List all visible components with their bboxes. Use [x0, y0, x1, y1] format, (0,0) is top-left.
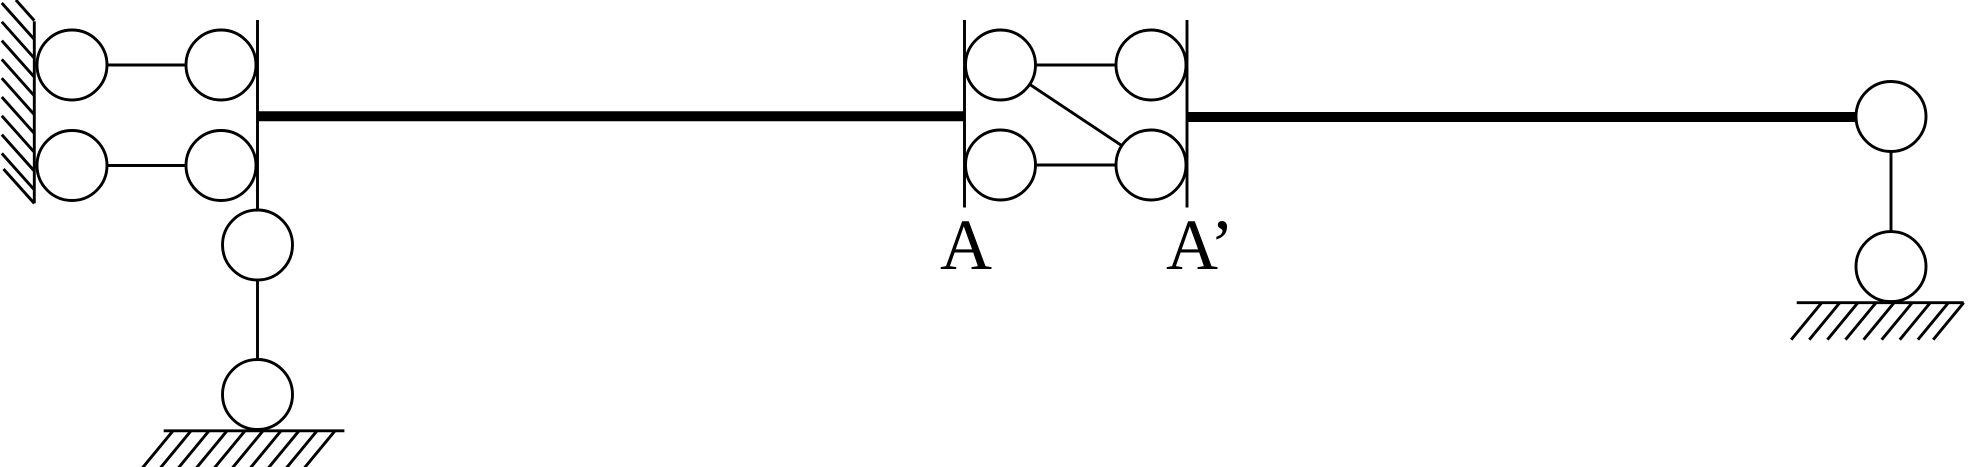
left ground hatching [143, 431, 336, 467]
left assembly roller circle top-left [37, 30, 107, 100]
left assembly bottom connector wire [72, 164, 221, 167]
svg-text:A: A [940, 205, 992, 285]
left ground line [164, 429, 345, 432]
middle top connector wire [1001, 64, 1152, 67]
left assembly roller circle bottom-left [37, 131, 107, 201]
right pendulum upper circle [1856, 82, 1926, 152]
section A left bar [963, 20, 966, 208]
left pendulum lower circle [223, 360, 293, 430]
middle roller circle top-left [966, 30, 1036, 100]
middle roller circle bottom-right [1116, 130, 1186, 200]
left assembly vertical bar [256, 20, 259, 210]
left pendulum link wire [256, 280, 259, 360]
svg-text:A’: A’ [1166, 205, 1234, 285]
middle roller circle top-right [1116, 30, 1186, 100]
right ground hatching [1791, 303, 1964, 340]
wall line [33, 21, 36, 203]
middle roller circle bottom-left [966, 130, 1036, 200]
section A' right bar [1186, 20, 1189, 208]
middle bottom connector wire [1001, 164, 1152, 167]
right pendulum lower circle [1856, 232, 1926, 302]
fixed wall hatching [2, 0, 35, 203]
middle diagonal connector wire [1001, 65, 1152, 165]
left assembly roller circle bottom-right [186, 131, 256, 201]
right pendulum link wire [1890, 152, 1893, 232]
beam right segment [1188, 112, 1856, 122]
left assembly roller circle top-right [186, 30, 256, 100]
left pendulum upper circle [223, 210, 293, 280]
beam left segment [258, 111, 965, 121]
right ground line [1797, 301, 1964, 304]
left assembly top connector wire [72, 64, 221, 67]
